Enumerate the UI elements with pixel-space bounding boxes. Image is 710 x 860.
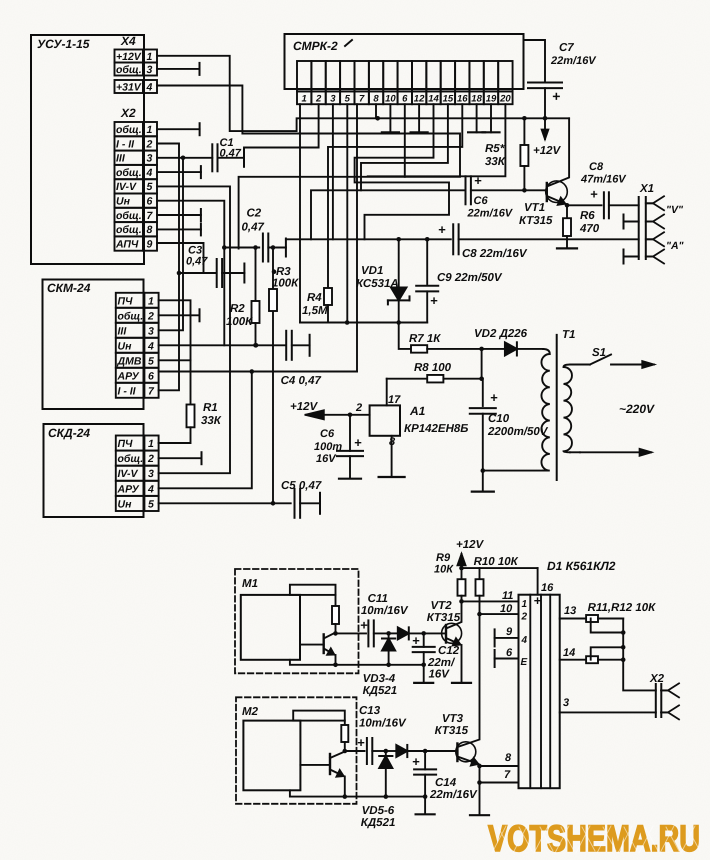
- svg-text:6: 6: [402, 94, 408, 105]
- wire СМРК pin1 down to VD1 node line: [299, 104, 301, 322]
- transformer T1: [562, 329, 575, 341]
- svg-text:"A": "A": [666, 240, 685, 252]
- module СМРК-2 outline: [285, 34, 524, 89]
- svg-text:C2: C2: [247, 208, 262, 220]
- wire X2 pin3 III to C1 and trunk to СКМ pin3: [157, 157, 212, 159]
- svg-text:I - II: I - II: [116, 138, 135, 150]
- svg-text:C11: C11: [368, 593, 388, 605]
- wire T1 primary bottom to C10: [483, 470, 543, 472]
- svg-text:16: 16: [457, 94, 468, 105]
- node R3 top junction: [272, 269, 277, 274]
- wire СКМ pin1 ПЧ trunk down through R1 to СКД pin1: [159, 300, 191, 404]
- node I-II / C3 junction: [177, 271, 182, 276]
- pin 14 line with resistor R12: [560, 659, 586, 661]
- resistor R5: [523, 118, 525, 145]
- module СКМ-24 outline: [43, 280, 144, 410]
- svg-text:X2: X2: [120, 106, 136, 120]
- svg-text:100К: 100К: [272, 278, 299, 290]
- power +12V arrow (top): [544, 118, 546, 139]
- wire СМРК pin7 down to АРУ line: [356, 104, 358, 371]
- svg-text:9: 9: [506, 626, 513, 638]
- svg-text:C10: C10: [488, 413, 510, 425]
- svg-text:III: III: [116, 153, 126, 165]
- svg-text:C8 22m/16V: C8 22m/16V: [462, 248, 528, 260]
- svg-text:5: 5: [148, 355, 154, 367]
- svg-text:470: 470: [579, 223, 600, 235]
- svg-text:+12V: +12V: [116, 51, 142, 63]
- ground stub СМРК pin12: [418, 104, 420, 132]
- svg-text:R6: R6: [580, 210, 595, 222]
- svg-text:2: 2: [147, 310, 154, 322]
- connector X1 pin gnd upper: [653, 215, 664, 229]
- svg-text:3: 3: [147, 153, 153, 165]
- wire X2 pin6 Uн trunk down to СКМ pin4: [157, 201, 224, 346]
- svg-text:14: 14: [563, 647, 575, 659]
- wire СМРК pin16 staircase through R4: [328, 104, 462, 288]
- wire +12V from X4 pin1 staircase: [157, 56, 569, 131]
- svg-text:C14: C14: [435, 777, 457, 789]
- capacitor C14 22m/16V: [423, 749, 428, 754]
- svg-text:22m/16V: 22m/16V: [467, 208, 514, 220]
- wire X2 pin8 stub: [157, 228, 201, 230]
- svg-text:14: 14: [428, 94, 439, 105]
- svg-text:17: 17: [388, 394, 401, 406]
- wire СКМ pin6 АРУ line: [159, 371, 357, 373]
- wire X2 pin9 АПЧ to C3: [157, 243, 204, 273]
- svg-text:C12: C12: [438, 645, 460, 657]
- svg-text:+: +: [430, 293, 438, 308]
- svg-text:IV-V: IV-V: [116, 181, 137, 193]
- wire СМРК pin3 down to C8 line: [332, 104, 334, 239]
- svg-text:+: +: [412, 633, 420, 648]
- svg-text:КД521: КД521: [363, 685, 398, 697]
- node M2 output bottom: [343, 794, 348, 799]
- svg-text:VD3-4: VD3-4: [363, 673, 396, 685]
- wire R9/R10 top rail: [462, 567, 538, 569]
- pin 16 of D1: [537, 568, 539, 595]
- capacitor C10 2200m/50V: [482, 379, 484, 406]
- connector X2 pin top: [668, 683, 679, 697]
- svg-text:0,47: 0,47: [220, 148, 242, 160]
- svg-text:R5*: R5*: [485, 143, 505, 155]
- svg-text:С6: С6: [474, 195, 489, 207]
- svg-text:6: 6: [148, 370, 154, 382]
- wire M1 top wire to C11: [336, 632, 367, 634]
- module СКД-24 outline: [44, 424, 144, 517]
- svg-text:Uн: Uн: [118, 498, 133, 510]
- svg-text:~220V: ~220V: [619, 402, 655, 416]
- svg-text:15: 15: [443, 94, 454, 105]
- svg-text:5: 5: [148, 498, 154, 510]
- svg-text:C9 22m/50V: C9 22m/50V: [437, 272, 503, 284]
- svg-text:VD5-6: VD5-6: [362, 805, 395, 817]
- wire right bus down to X2: [623, 619, 656, 691]
- svg-text:22m/: 22m/: [427, 657, 456, 669]
- svg-text:2200m/50V: 2200m/50V: [487, 426, 549, 438]
- svg-text:КТ315: КТ315: [427, 612, 461, 624]
- svg-text:20: 20: [499, 94, 511, 105]
- plus mark inside D1: [534, 593, 542, 608]
- capacitor C7: [524, 40, 546, 82]
- node C2 / trunk x273: [271, 245, 276, 250]
- svg-text:8: 8: [389, 436, 396, 448]
- svg-text:1: 1: [147, 51, 153, 63]
- connector X1: [638, 197, 640, 259]
- svg-text:1: 1: [147, 124, 153, 136]
- svg-text:Uн: Uн: [116, 196, 131, 208]
- svg-text:X4: X4: [120, 34, 136, 48]
- svg-text:6: 6: [147, 196, 153, 208]
- connector X1 pin gnd lower: [653, 250, 664, 264]
- svg-text:УСУ-1-15: УСУ-1-15: [37, 37, 90, 51]
- ground stub СМРК pin10: [389, 104, 391, 132]
- pin 2 of A1 / +12V output arrow: [350, 414, 370, 416]
- svg-text:T1: T1: [562, 329, 575, 341]
- wire СКД pin2 stub: [159, 457, 202, 459]
- T1 primary winding: [541, 349, 549, 471]
- svg-text:E: E: [521, 657, 528, 668]
- svg-text:КТ315: КТ315: [519, 215, 553, 227]
- capacitor C3: [179, 272, 216, 274]
- wire СМРК pin8 down to rail: [375, 104, 377, 118]
- svg-text:общ.: общ.: [118, 310, 144, 322]
- svg-text:2: 2: [146, 138, 153, 150]
- wire X2 pin2 I-II trunk down to СКМ pin7: [157, 144, 179, 391]
- svg-text:2: 2: [147, 453, 154, 465]
- wire СМРК pin20 staircase: [368, 104, 506, 176]
- wire M2 top wire to C13: [345, 750, 365, 752]
- pin 8 line of D1: [480, 765, 519, 767]
- svg-text:1: 1: [522, 599, 528, 610]
- series diode VD5: [386, 750, 397, 752]
- transistor VT3 КТ315: [456, 742, 476, 762]
- M1 internal resistor: [335, 595, 337, 606]
- pin 10 line (D1 pin2): [480, 613, 519, 615]
- svg-text:R11,R12 10К: R11,R12 10К: [588, 602, 657, 614]
- pin 8 of A1 / ground: [391, 436, 393, 477]
- svg-text:10К: 10К: [434, 564, 454, 576]
- shunt diode VD6: [384, 749, 389, 754]
- svg-text:10: 10: [385, 94, 396, 105]
- wire VT1 base line: [471, 189, 547, 191]
- resistor R7 1К: [399, 323, 411, 349]
- resistor R10 10К: [479, 568, 481, 579]
- svg-text:+: +: [412, 754, 420, 769]
- node M1 output bottom: [333, 663, 338, 668]
- wire СКМ pin4 Uн line with C4: [159, 344, 286, 346]
- svg-text:M2: M2: [242, 706, 259, 718]
- node VT3 emitter pin8: [477, 764, 482, 769]
- node VT1 emitter: [565, 203, 570, 208]
- T1 core: [556, 335, 558, 480]
- pin 11 line (D1 pin1): [462, 600, 519, 602]
- svg-text:4: 4: [147, 340, 154, 352]
- svg-text:общ.: общ.: [116, 124, 142, 136]
- node M1 output top: [333, 631, 338, 636]
- svg-text:общ.: общ.: [116, 167, 142, 179]
- watermark votshema.ru: [488, 818, 700, 859]
- node pin7: [477, 780, 482, 785]
- wire СМРК pin15 staircase: [361, 104, 448, 190]
- svg-text:+: +: [354, 435, 362, 450]
- capacitor C11 10m/16V: [367, 620, 369, 646]
- svg-text:0,47: 0,47: [186, 256, 208, 268]
- capacitor C4: [285, 331, 287, 360]
- svg-text:АПЧ: АПЧ: [115, 238, 139, 250]
- diode VD2 Д226: [482, 348, 505, 350]
- svg-text:VD2 Д226: VD2 Д226: [474, 328, 528, 340]
- svg-text:10m/16V: 10m/16V: [361, 605, 409, 617]
- wire M2 bottom rail: [290, 790, 425, 796]
- svg-text:С6: С6: [320, 428, 335, 440]
- svg-text:100m: 100m: [314, 441, 342, 453]
- connector X2 label: [120, 106, 136, 120]
- M1 inner body: [241, 595, 300, 660]
- pin 7 line of D1: [480, 782, 519, 784]
- M2 internal resistor: [344, 721, 346, 725]
- pin 9 stub (D1 pin4): [495, 637, 519, 639]
- svg-text:R1: R1: [203, 402, 218, 414]
- svg-text:+: +: [357, 735, 365, 750]
- tick mark near СМРК-2 label: [345, 40, 352, 46]
- svg-text:3: 3: [148, 325, 154, 337]
- svg-text:16V: 16V: [429, 669, 451, 681]
- capacitor C2: [224, 247, 259, 249]
- connector X2 (output): [649, 673, 665, 685]
- connector СКМ-24 cells: [116, 293, 145, 308]
- svg-text:4: 4: [146, 167, 153, 179]
- svg-text:7: 7: [504, 769, 511, 781]
- svg-text:ПЧ: ПЧ: [118, 438, 134, 450]
- module УСУ-1-15 outline: [31, 35, 144, 264]
- svg-text:47m/16V: 47m/16V: [580, 174, 627, 186]
- svg-text:10m/16V: 10m/16V: [359, 718, 407, 730]
- svg-text:+: +: [590, 187, 598, 202]
- capacitor C8 (22m/16V) line to X1 pin A: [286, 238, 451, 240]
- svg-text:3: 3: [330, 94, 336, 105]
- svg-text:A1: A1: [409, 404, 426, 418]
- wire VD1/C9 node line: [300, 322, 427, 324]
- capacitor С6 100m 16V: [349, 415, 351, 451]
- wire СМРК pin5 down to VD1 line: [346, 104, 348, 322]
- resistor R4: [324, 288, 332, 305]
- svg-text:+: +: [490, 390, 498, 405]
- svg-text:R3: R3: [276, 266, 291, 278]
- svg-text:C13: C13: [359, 705, 381, 717]
- svg-text:ПЧ: ПЧ: [118, 295, 134, 307]
- wire АРУ trunk to СКД pin4: [159, 372, 252, 489]
- resistor R2: [255, 248, 257, 302]
- svg-text:VOTSHEMA.RU: VOTSHEMA.RU: [488, 818, 700, 859]
- svg-text:+12V: +12V: [290, 401, 319, 413]
- wire mains top arrow: [611, 364, 654, 366]
- svg-text:1: 1: [148, 438, 154, 450]
- svg-text:VT2: VT2: [431, 600, 453, 612]
- svg-text:АРУ: АРУ: [117, 370, 140, 382]
- svg-text:R4: R4: [307, 292, 322, 304]
- pin labels inside D1: [521, 599, 528, 668]
- wire X4 pin3 stub: [157, 68, 200, 70]
- resistor R8 100: [387, 378, 428, 380]
- svg-text:C5 0,47: C5 0,47: [281, 480, 322, 492]
- wire X2 pin1 stub: [157, 128, 200, 130]
- wire СМРК pin2 route to C1 terminator: [244, 104, 319, 147]
- M1 internal transistor: [300, 644, 324, 646]
- svg-text:8: 8: [373, 94, 379, 105]
- svg-text:D1 К561КЛ2: D1 К561КЛ2: [547, 559, 616, 573]
- svg-text:КТ315: КТ315: [435, 725, 469, 737]
- svg-text:3: 3: [148, 468, 154, 480]
- T1 secondary winding: [564, 365, 572, 453]
- capacitor C5: [294, 489, 296, 518]
- svg-text:33К: 33К: [201, 415, 222, 427]
- connector СМРК-2 cells: [297, 61, 311, 91]
- svg-text:22m/16V: 22m/16V: [550, 55, 597, 67]
- svg-text:10: 10: [500, 603, 513, 615]
- svg-text:16: 16: [541, 582, 554, 594]
- connector X1 pin "A": [653, 232, 664, 246]
- shunt diode VD4: [386, 631, 391, 636]
- svg-text:1: 1: [148, 295, 154, 307]
- label ~220V: [619, 402, 655, 416]
- svg-text:8: 8: [147, 224, 153, 236]
- regulator A1 КР142ЕН8Б: [370, 405, 400, 435]
- svg-text:3: 3: [563, 697, 569, 709]
- M2 flag rect: [293, 711, 345, 721]
- resistor R1: [187, 405, 195, 428]
- svg-text:КР142ЕН8Б: КР142ЕН8Б: [404, 423, 468, 435]
- pin 13 line with resistor R11: [560, 618, 586, 620]
- node junction СМРК pin8 on +12V rail: [375, 116, 380, 121]
- svg-text:2: 2: [315, 94, 322, 105]
- svg-text:5: 5: [147, 181, 153, 193]
- wire СКМ pin5 ДМВ: [159, 359, 191, 361]
- capacitor C12 22m/16V: [421, 631, 426, 636]
- M2 inner body: [243, 721, 300, 791]
- transistor VT1 КТ315: [546, 181, 568, 203]
- svg-text:VT1: VT1: [524, 202, 545, 214]
- capacitor C9 22m/50V: [426, 239, 428, 284]
- pin 17 of A1: [386, 379, 388, 406]
- svg-text:+: +: [360, 618, 368, 633]
- svg-text:+: +: [438, 222, 446, 237]
- svg-text:C4 0,47: C4 0,47: [281, 375, 322, 387]
- wire R12 output jumper: [591, 647, 624, 659]
- connector X2 cells: [115, 122, 144, 136]
- wire СМРК pin6 down: [404, 104, 406, 177]
- svg-text:C7: C7: [559, 42, 574, 54]
- svg-text:1,5М: 1,5М: [302, 305, 328, 317]
- svg-text:СКД-24: СКД-24: [48, 426, 90, 440]
- svg-text:5: 5: [345, 94, 351, 105]
- svg-text:6: 6: [506, 647, 513, 659]
- zener diode VD1 КС531А: [398, 239, 400, 287]
- svg-text:III: III: [118, 325, 128, 337]
- svg-text:8: 8: [505, 752, 512, 764]
- node junction C7 on rail: [543, 116, 548, 121]
- resistor R3: [269, 289, 277, 311]
- svg-text:100К: 100К: [226, 316, 253, 328]
- svg-text:1: 1: [302, 94, 307, 105]
- svg-text:4: 4: [521, 635, 528, 646]
- connector X4 label: [120, 34, 136, 48]
- wire X2 pin5 IV-V trunk down to СКД pin3: [157, 186, 230, 473]
- svg-text:ДМВ: ДМВ: [117, 355, 142, 367]
- svg-text:S1: S1: [592, 347, 606, 359]
- IC D1 К561КЛ2: [547, 559, 616, 573]
- switch S1: [570, 364, 590, 366]
- connector X4 cells: [115, 50, 144, 63]
- wire Uн node line / C2 branch: [222, 245, 227, 250]
- pin 6 stub (D1 pinE): [495, 658, 519, 660]
- wire СМРК pin14 snake staircase: [355, 104, 449, 239]
- svg-text:18: 18: [471, 94, 482, 105]
- svg-text:+: +: [534, 593, 542, 608]
- resistor R6: [566, 205, 568, 218]
- power +12V arrow (bottom section): [456, 539, 485, 551]
- svg-text:I - II: I - II: [118, 385, 137, 397]
- M1 flag rect: [290, 585, 336, 595]
- ground stub СМРК pin18: [476, 104, 478, 132]
- transistor VT2 КТ315: [442, 623, 462, 643]
- svg-text:4: 4: [146, 82, 153, 94]
- ground stub СМРК pin19: [490, 104, 492, 132]
- wire X2 pin7 stub: [157, 214, 201, 216]
- svg-text:VD1: VD1: [361, 265, 383, 277]
- svg-text:R7 1К: R7 1К: [409, 333, 441, 345]
- svg-text:+: +: [552, 88, 560, 104]
- svg-text:общ.: общ.: [116, 210, 142, 222]
- svg-text:19: 19: [486, 94, 497, 105]
- series diode VD3: [389, 632, 398, 634]
- svg-text:2: 2: [521, 612, 528, 623]
- svg-text:12: 12: [414, 94, 425, 105]
- svg-text:+12V: +12V: [533, 145, 562, 157]
- capacitor C1: [211, 144, 213, 171]
- resistor R9 10К: [461, 568, 463, 579]
- connector СКД-24 cells: [116, 436, 145, 451]
- svg-text:СМРК-2: СМРК-2: [293, 39, 338, 53]
- svg-text:IV-V: IV-V: [118, 468, 139, 480]
- connector X1 pin "V": [653, 196, 664, 210]
- svg-text:3: 3: [147, 64, 153, 76]
- M2 internal transistor: [300, 764, 330, 766]
- wire X2 pin4 stub: [157, 171, 201, 173]
- svg-text:X1: X1: [639, 183, 654, 195]
- wire СКМ pin2 stub: [159, 314, 200, 316]
- svg-text:общ.: общ.: [116, 224, 142, 236]
- svg-text:R8 100: R8 100: [414, 362, 452, 374]
- svg-text:АРУ: АРУ: [117, 483, 140, 495]
- svg-text:22m/16V: 22m/16V: [429, 789, 478, 801]
- svg-text:4: 4: [147, 483, 154, 495]
- connector X2 pin bottom: [668, 705, 679, 719]
- svg-text:9: 9: [147, 238, 153, 250]
- svg-text:общ.: общ.: [118, 453, 144, 465]
- svg-text:7: 7: [359, 94, 365, 105]
- svg-text:R9: R9: [436, 552, 451, 564]
- svg-text:0,47: 0,47: [242, 222, 265, 234]
- wire mains bottom arrow: [570, 451, 580, 453]
- svg-text:33К: 33К: [485, 156, 506, 168]
- wire +31V from X4 pin4: [157, 86, 460, 249]
- motor M2 dashed box: [236, 697, 357, 804]
- svg-text:M1: M1: [242, 578, 258, 590]
- svg-text:общ.: общ.: [116, 64, 142, 76]
- node junction R5 top on rail: [522, 116, 527, 121]
- svg-text:C8: C8: [589, 161, 604, 173]
- wire M1 bottom rail: [290, 660, 424, 665]
